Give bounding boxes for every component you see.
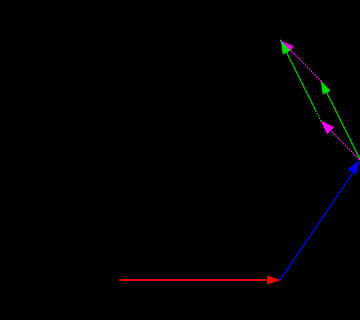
magenta arrowhead M2 <box>280 40 293 53</box>
wire: magenta dotted shaft M2 <box>280 40 320 81</box>
red arrowhead <box>267 276 281 285</box>
vector M2 (magenta dotted, P2 to top) <box>280 40 320 81</box>
green arrowhead G2 <box>321 81 331 95</box>
wire: blue shaft <box>280 171 354 280</box>
green arrowhead G1 <box>281 41 291 55</box>
blue arrowhead <box>348 160 360 175</box>
vector G2 (green dotted, corner to P2) <box>321 81 360 161</box>
wire: green dotted shaft G1 (sparse near tail) <box>315 110 321 121</box>
wire: green dotted shaft G2 <box>321 81 360 161</box>
wire: magenta dotted shaft M1 <box>321 121 360 161</box>
wire: red shaft <box>120 279 268 281</box>
vector A (red, horizontal) <box>120 276 281 285</box>
vector B (blue, up-right) <box>280 160 360 280</box>
vector M1 (magenta dotted, corner to P1) <box>321 121 360 161</box>
vector G1 (green dotted, P1 to top) <box>281 41 321 121</box>
magenta arrowhead M1 <box>321 121 334 134</box>
wire: green dotted shaft G1 (main) <box>281 41 315 110</box>
